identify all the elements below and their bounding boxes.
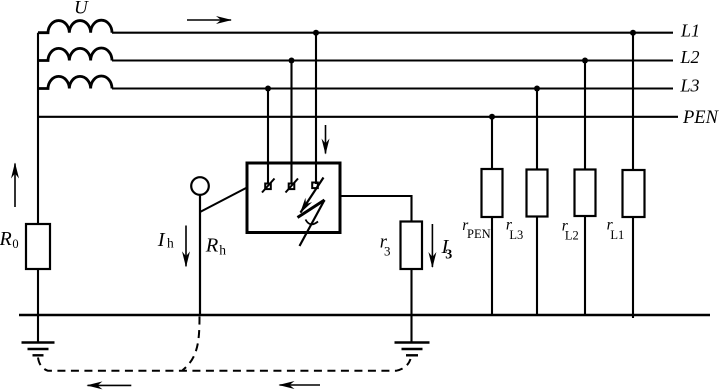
wire L3 tap to box (267, 89, 269, 185)
wire L3 to rL3 (536, 89, 538, 170)
node junction on L1 at rL1 (630, 30, 636, 36)
contact terminal 1 (262, 179, 275, 193)
node junction on L1 (313, 30, 319, 36)
wire L1 to rL1 (632, 33, 634, 170)
box: electrical equipment enclosure (247, 163, 340, 233)
node junction on L3 (265, 86, 271, 92)
svg-text:h: h (219, 242, 226, 257)
contact terminal 3 (312, 183, 318, 189)
node junction on L2 (289, 58, 295, 64)
person body Rh (199, 195, 201, 315)
arrow current direction top (187, 19, 231, 21)
svg-text:U: U (74, 0, 89, 19)
svg-text:L2: L2 (565, 228, 579, 242)
wire L2 to rL2 (584, 61, 586, 170)
winding U phase L2 (38, 48, 112, 60)
wire rL3 to earth bus (536, 217, 538, 316)
resistor rL2 (575, 170, 596, 217)
svg-text:L1: L1 (610, 228, 624, 242)
fault arrow (breakdown bolt) (298, 178, 325, 247)
resistor rL1 (623, 170, 645, 217)
svg-text:L3: L3 (680, 76, 700, 96)
person arm to box (200, 188, 247, 213)
arrow return current left (88, 384, 132, 386)
svg-text:PEN: PEN (682, 108, 720, 128)
svg-text:L1: L1 (680, 21, 700, 41)
wire line L1 (112, 32, 673, 34)
resistor r3 (401, 222, 423, 270)
wire box to r3 (340, 196, 412, 222)
node junction on L2 at rL2 (582, 58, 588, 64)
wire line L3 (112, 87, 673, 89)
svg-text:R: R (205, 235, 219, 257)
winding U phase L1 (38, 20, 112, 32)
arrow return current right (280, 384, 321, 386)
node N: neutral bus vertical (37, 33, 39, 224)
wire L1 tap to box (315, 33, 317, 184)
svg-text:0: 0 (12, 237, 18, 251)
svg-text:L3: L3 (509, 228, 523, 242)
wire earth lead right (410, 315, 412, 342)
wire dashed return path from Rh (183, 317, 200, 371)
node junction on L3 at rL3 (534, 86, 540, 92)
arrow current Ih (185, 226, 187, 267)
resistor R0 (26, 224, 50, 269)
contact terminal 2 (286, 179, 299, 193)
wire PEN to rPEN (491, 117, 493, 169)
svg-text:I: I (157, 229, 166, 251)
resistor rPEN (482, 169, 503, 217)
wire r3 to earth bus (410, 269, 412, 315)
wire rPEN to earth bus (491, 217, 493, 315)
arrow current up at R0 (14, 164, 16, 208)
node junction on PEN (489, 114, 495, 120)
person head (touching body) (191, 177, 209, 195)
svg-text:3: 3 (445, 248, 452, 263)
svg-text:h: h (167, 236, 174, 251)
ground right (395, 343, 430, 356)
wire R0 to earth bus (37, 269, 39, 315)
wire L2 tap to box (290, 61, 292, 185)
svg-text:PEN: PEN (467, 227, 491, 241)
svg-text:L2: L2 (680, 47, 700, 67)
wire line PEN (38, 116, 678, 118)
arrow current into box (325, 125, 327, 154)
wire rL2 to earth bus (584, 216, 586, 315)
wire earth lead left (37, 315, 39, 342)
winding U phase L3 (38, 76, 112, 88)
svg-text:R: R (0, 228, 12, 250)
wire dashed return path ground to ground (38, 358, 411, 371)
wire line L2 (112, 59, 673, 61)
wire rL1 to earth bus (632, 217, 634, 318)
wire earth bus (19, 314, 710, 316)
ground left (22, 343, 55, 356)
svg-text:3: 3 (384, 244, 391, 259)
resistor rL3 (527, 170, 548, 217)
arrow current I3 (431, 224, 433, 267)
